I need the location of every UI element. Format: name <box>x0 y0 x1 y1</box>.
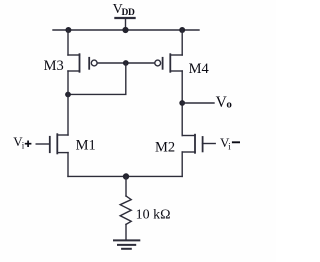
resistor 10 kOhm <box>120 177 131 241</box>
svg-text:M4: M4 <box>189 61 210 77</box>
wire left branch vertical (M3 drain to M1 drain) <box>67 71 69 135</box>
power VDD supply bar <box>115 18 134 30</box>
label VDD <box>113 2 135 18</box>
wire M1 source down <box>67 153 69 177</box>
svg-text:M3: M3 <box>44 58 64 74</box>
transistor M4 (PMOS) <box>155 54 182 72</box>
wire left branch vertical (rail to M3 source) <box>67 30 69 55</box>
transistor M2 (NMOS) <box>182 135 215 153</box>
svg-text:DD: DD <box>122 8 135 18</box>
node junction dot right rail <box>179 27 185 33</box>
wire M2 source down <box>181 152 183 176</box>
node junction dot left rail <box>65 27 71 33</box>
wire right branch vertical (rail to M4 source) <box>181 30 183 55</box>
svg-text:10 kΩ: 10 kΩ <box>136 207 171 222</box>
transistor M3 (PMOS) <box>68 54 97 72</box>
node junction dot tail <box>123 173 129 179</box>
node junction dot VDD rail <box>122 27 128 33</box>
node junction dot gate bus <box>123 60 129 66</box>
wire gate bus M3-M4 <box>97 62 155 64</box>
wire right branch vertical (M4 drain to M2 drain) <box>181 71 183 136</box>
svg-text:M2: M2 <box>155 140 175 156</box>
svg-text:M1: M1 <box>76 138 96 154</box>
transistor M1 (NMOS) <box>36 134 68 153</box>
label Vi+ input <box>13 134 31 150</box>
label Vi- input <box>220 135 240 151</box>
node junction dot Vo <box>179 100 185 106</box>
node junction dot M3 drain <box>65 92 71 98</box>
wire tail rail <box>68 175 182 177</box>
wire gate-to-drain tie (down then left) <box>68 63 126 94</box>
wire top rail <box>53 29 199 31</box>
ground <box>114 240 139 248</box>
svg-text:o: o <box>226 98 232 110</box>
wire output Vo <box>182 102 214 104</box>
label Vo output <box>216 94 233 111</box>
